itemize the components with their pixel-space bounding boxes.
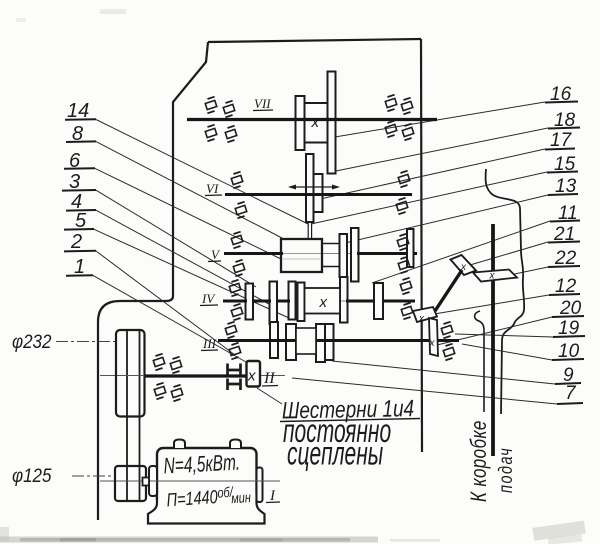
svg-text:x: x xyxy=(247,368,256,385)
gear VII tall xyxy=(328,72,336,174)
center line shaft II xyxy=(100,375,285,377)
gear IV 6 xyxy=(374,283,383,319)
shaft VI xyxy=(225,193,412,196)
housing wavy right extension xyxy=(486,169,525,414)
arrow VI shift xyxy=(294,186,334,188)
big pulley xyxy=(116,330,145,417)
svg-text:x: x xyxy=(489,271,496,282)
leader 12 xyxy=(428,295,549,315)
gear III R1 xyxy=(316,324,325,362)
gear IV under A xyxy=(340,277,348,323)
leader 18 xyxy=(336,128,548,171)
shaft IV segments xyxy=(223,300,247,303)
svg-text:x: x xyxy=(418,314,425,325)
center line shaft V xyxy=(230,253,415,255)
motor lug right xyxy=(230,440,241,449)
scan smudge bottom left xyxy=(0,527,9,542)
shaft II xyxy=(144,374,247,377)
svg-text:подач: подач xyxy=(494,447,517,493)
gear VI stem xyxy=(307,222,309,239)
housing top edge xyxy=(208,39,421,42)
gear IV 2 / III tall xyxy=(270,282,278,325)
motor lug left xyxy=(174,440,185,449)
clutch lower half xyxy=(228,379,241,391)
shaft VII xyxy=(187,118,437,121)
bearings IV xyxy=(227,280,243,297)
leader 20 xyxy=(437,317,552,345)
leader to note xyxy=(257,388,282,404)
gear III R2 xyxy=(325,324,334,360)
motor feet xyxy=(148,493,265,524)
svg-text:сцеплены: сцеплены xyxy=(287,435,384,472)
svg-text:II: II xyxy=(263,370,275,387)
leader 14 xyxy=(96,120,308,225)
gear V A xyxy=(340,234,348,277)
scan speckles xyxy=(100,9,126,14)
clutch upper half xyxy=(228,364,241,376)
leader 8 xyxy=(96,142,282,238)
housing right edge xyxy=(421,39,422,452)
motor shield right xyxy=(257,468,263,503)
motor body xyxy=(157,448,257,505)
scan smudge bottom right xyxy=(532,521,585,541)
svg-text:VII: VII xyxy=(254,96,271,111)
gear IV 1 xyxy=(246,284,254,320)
svg-text:N=4,5кВт.: N=4,5кВт. xyxy=(163,451,241,479)
block V xyxy=(281,239,322,272)
gear II xbox xyxy=(247,361,261,387)
svg-text:К коробке: К коробке xyxy=(467,420,492,502)
svg-text:IV: IV xyxy=(201,291,216,306)
belt xyxy=(126,417,128,467)
shaft III xyxy=(218,339,297,342)
gear III left tall xyxy=(270,322,278,358)
svg-text:7: 7 xyxy=(565,383,577,404)
lever blade vertical xyxy=(429,318,438,356)
leader 15 xyxy=(311,172,547,224)
shaft V left xyxy=(224,252,283,255)
leader 10 xyxy=(462,344,552,360)
gear VI step xyxy=(314,174,323,212)
leader 3 xyxy=(96,190,256,287)
svg-text:φ232: φ232 xyxy=(12,330,51,352)
leader 11 xyxy=(372,221,550,283)
lever blade upper right xyxy=(473,270,517,282)
leader 7 xyxy=(292,378,557,404)
leader 1 xyxy=(93,275,246,362)
center line shaft IV xyxy=(225,300,413,302)
bearing wall V right xyxy=(407,229,414,267)
leader 9 xyxy=(332,361,555,384)
bearings III xyxy=(223,322,239,339)
motor shaft stub xyxy=(143,478,150,486)
svg-text:φ125: φ125 xyxy=(12,464,52,486)
housing channel left line xyxy=(475,311,484,412)
svg-text:x: x xyxy=(319,294,328,311)
bearings V xyxy=(229,232,245,249)
lever arm xyxy=(431,270,462,317)
motor shield left xyxy=(149,466,157,496)
gear V B xyxy=(351,228,359,282)
gear III L2 xyxy=(286,324,296,360)
lever blade upper left xyxy=(451,255,477,275)
leader 22 xyxy=(500,267,548,277)
bearings VI xyxy=(229,172,245,189)
svg-text:x: x xyxy=(311,114,320,131)
gear VI tall xyxy=(306,154,314,222)
bearings VII left xyxy=(203,97,219,114)
leader 19 xyxy=(455,334,553,337)
shaft V right xyxy=(357,252,417,255)
sleeve IV xyxy=(305,288,341,314)
svg-text:III: III xyxy=(202,336,217,351)
leader 5 xyxy=(94,229,289,318)
leader 17 xyxy=(320,149,545,199)
svg-text:x: x xyxy=(429,338,436,349)
bearings II xyxy=(151,354,167,371)
leader 4 xyxy=(96,210,269,304)
gear IV 4 xyxy=(298,283,305,322)
feed shaft vertical xyxy=(491,224,495,456)
scan artifact bottom band xyxy=(0,537,378,543)
housing left outline xyxy=(98,42,208,520)
hub VII xyxy=(305,103,328,143)
leader 6 xyxy=(95,168,281,259)
center line phi125 xyxy=(72,475,115,477)
lever blade lower xyxy=(413,307,437,322)
svg-text:2: 2 xyxy=(70,231,82,253)
small pulley xyxy=(115,466,146,501)
gear VII left xyxy=(296,96,305,150)
sleeve III xyxy=(296,328,316,354)
leader 21 xyxy=(470,242,548,265)
gear IV 3 xyxy=(289,282,296,320)
center line motor shaft I xyxy=(100,480,280,482)
leader 13 xyxy=(345,195,548,243)
center line phi232 xyxy=(56,341,116,343)
leader 2 xyxy=(96,251,235,355)
bearings VII right xyxy=(383,95,399,112)
leader 16 xyxy=(299,102,545,143)
sleeve V lines xyxy=(322,243,340,245)
svg-text:VI: VI xyxy=(206,181,219,196)
